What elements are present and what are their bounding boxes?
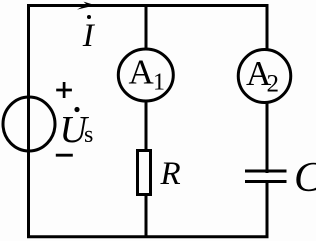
ammeter A1 circle (118, 49, 173, 101)
source U_s circle (3, 97, 55, 151)
wire top (node between source and branches) (27, 4, 268, 7)
plus sign of source (56, 82, 72, 98)
svg-text:C: C (294, 155, 316, 201)
capacitor C bottom plate (245, 180, 287, 183)
wire middle branch (A1 + R) (145, 4, 148, 237)
wire bottom (return node) (27, 235, 269, 238)
current arrow on top wire (77, 2, 96, 10)
svg-text:A: A (129, 53, 155, 92)
wire left (source branch) (27, 4, 30, 238)
capacitor C top plate (245, 170, 287, 173)
svg-text:s: s (84, 122, 93, 148)
svg-text:1: 1 (153, 70, 165, 96)
ammeter A2 circle (238, 50, 291, 103)
wire right branch (A2 + C) (266, 4, 269, 237)
capacitor C gap mask (255, 173, 279, 180)
resistor R body (138, 151, 151, 195)
minus sign of source (56, 154, 73, 157)
svg-text:I: I (82, 18, 96, 54)
svg-text:2: 2 (267, 71, 280, 98)
svg-text:R: R (160, 156, 181, 192)
dot above U (74, 107, 79, 112)
dot above I (87, 15, 91, 19)
